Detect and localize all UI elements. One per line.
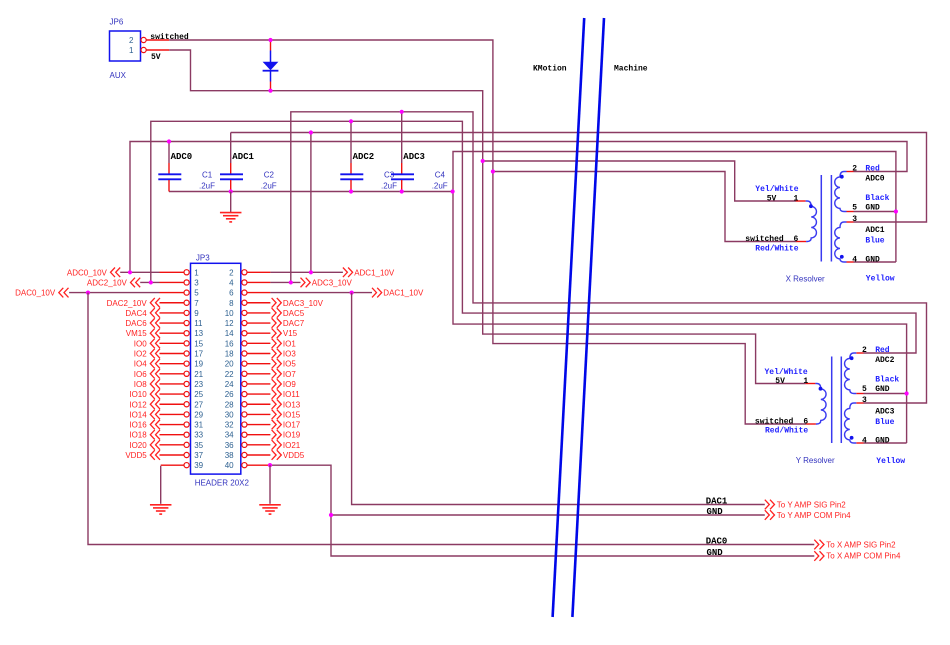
svg-text:14: 14	[225, 329, 234, 338]
transformer Y-resolver top secondary winding polarity dot	[850, 356, 854, 360]
chevron for ADC3_10V at pin 4	[301, 278, 311, 288]
chevron for IO13 at pin 28	[272, 399, 282, 409]
svg-text:GND: GND	[707, 507, 724, 517]
svg-text:17: 17	[194, 350, 203, 359]
JP3 pin 38 circle	[242, 452, 247, 457]
svg-text:To X AMP COM Pin4: To X AMP COM Pin4	[826, 551, 901, 560]
svg-text:Machine: Machine	[614, 64, 648, 73]
JP3 pin 3 circle	[184, 280, 189, 285]
svg-text:switched: switched	[755, 418, 794, 427]
JP3 pin 31 circle	[184, 422, 189, 427]
transformer Y-resolver bottom secondary winding polarity dot	[850, 436, 854, 440]
wire pin 2 to chevron	[270, 271, 343, 273]
junction C3 bottom on ground bus	[349, 189, 353, 193]
diode D1 bottom red stub	[270, 82, 272, 91]
JP3 pin 34 red stub	[247, 434, 270, 436]
svg-text:IO16: IO16	[129, 421, 147, 430]
svg-text:Blue: Blue	[875, 418, 894, 427]
header JP3 body	[191, 263, 241, 474]
transformer Y-resolver bottom secondary winding lower red stub	[856, 442, 863, 444]
wire pin 1 to chevron	[120, 271, 159, 273]
JP3 pin 10 red stub	[247, 312, 270, 314]
svg-text:31: 31	[194, 421, 203, 430]
chevron for DAC6 at pin 11	[150, 318, 160, 328]
svg-text:DAC0_10V: DAC0_10V	[15, 289, 56, 298]
svg-text:DAC1_10V: DAC1_10V	[383, 289, 424, 298]
svg-text:5: 5	[862, 385, 867, 394]
wire DAC1 net: pin6 junction down and across to Y AMP	[352, 293, 765, 505]
svg-text:6: 6	[803, 418, 808, 427]
svg-text:Y Resolver: Y Resolver	[796, 456, 835, 465]
chevron for IO19 at pin 34	[272, 430, 282, 440]
svg-text:GND: GND	[707, 548, 724, 558]
transformer Y-resolver top secondary winding upper red stub	[856, 352, 863, 354]
JP3 pin 25 red stub	[160, 393, 184, 395]
svg-text:IO21: IO21	[283, 441, 301, 450]
chevron for VDD5 at pin 38	[272, 450, 282, 460]
JP3 pin 12 circle	[242, 320, 247, 325]
svg-text:2: 2	[852, 165, 857, 174]
transformer X-resolver bottom secondary winding	[835, 222, 847, 262]
svg-text:Red: Red	[865, 165, 880, 174]
svg-text:IO3: IO3	[283, 350, 296, 359]
svg-text:1: 1	[794, 195, 799, 204]
svg-text:IO20: IO20	[129, 441, 147, 450]
boundary line KMotion|Machine left	[553, 18, 585, 617]
svg-text:ADC2: ADC2	[353, 152, 375, 162]
JP3 pin 23 circle	[184, 381, 189, 386]
svg-text:3: 3	[194, 278, 199, 287]
chevron for IO6 at pin 21	[150, 369, 160, 379]
transformer Y-resolver top secondary winding lower red stub	[856, 393, 863, 395]
transformer Y-resolver pin6 red stub	[806, 423, 816, 425]
chevron for IO2 at pin 17	[150, 349, 160, 359]
svg-text:3: 3	[862, 396, 867, 405]
chevron To Y AMP COM	[765, 510, 775, 520]
chevron for IO3 at pin 18	[272, 349, 282, 359]
svg-text:7: 7	[194, 299, 199, 308]
svg-text:ADC0_10V: ADC0_10V	[67, 268, 108, 277]
svg-text:IO15: IO15	[283, 410, 301, 419]
JP3 pin 33 red stub	[160, 434, 184, 436]
ground symbol below pin39	[150, 505, 172, 514]
transformer X-resolver top secondary winding polarity dot	[840, 175, 844, 179]
svg-text:8: 8	[229, 299, 234, 308]
JP3 pin 8 red stub	[247, 302, 270, 304]
svg-text:DAC0: DAC0	[706, 536, 728, 546]
JP3 pin 16 circle	[242, 341, 247, 346]
JP3 pin 11 circle	[184, 320, 189, 325]
transformer Y-resolver pin1 red stub	[806, 383, 816, 385]
wire GND Y-resolver pin4 stub wire	[864, 442, 907, 444]
svg-text:5: 5	[194, 289, 199, 298]
junction C1 top on ADC0 wire	[167, 139, 171, 143]
svg-text:36: 36	[225, 441, 234, 450]
chevron for IO20 at pin 35	[150, 440, 160, 450]
svg-text:IO14: IO14	[129, 410, 147, 419]
JP3 pin 15 red stub	[160, 342, 184, 344]
svg-text:1: 1	[194, 268, 199, 277]
wire pin 6 to chevron	[270, 292, 372, 294]
chevron for IO16 at pin 31	[150, 420, 160, 430]
transformer Y-resolver primary winding	[815, 384, 826, 425]
JP3 pin 28 circle	[242, 402, 247, 407]
svg-text:IO10: IO10	[129, 390, 147, 399]
JP3 pin 31 red stub	[160, 424, 184, 426]
JP3 pin 11 red stub	[160, 322, 184, 324]
JP3 pin 18 red stub	[247, 353, 270, 355]
svg-text:Yel/White: Yel/White	[765, 368, 808, 377]
JP3 pin 14 circle	[242, 331, 247, 336]
wire ADC1 net: C2 top across to X-resolver pin3	[231, 133, 927, 223]
JP3 pin 27 circle	[184, 402, 189, 407]
capacitor C2 plates	[220, 174, 243, 179]
connector JP6 body	[110, 31, 141, 61]
chevron To Y AMP SIG	[765, 500, 775, 510]
JP3 pin 9 red stub	[160, 312, 184, 314]
svg-text:Red/White: Red/White	[755, 244, 798, 253]
wire switched net: JP6 pin2 to corner, down to Y-resolver pin6 run	[169, 40, 806, 424]
svg-text:DAC6: DAC6	[125, 319, 147, 328]
junction ADC1 wire / pin2 vertical	[309, 130, 313, 134]
JP3 pin 35 red stub	[160, 444, 184, 446]
chevron To X AMP COM	[814, 551, 824, 561]
svg-text:18: 18	[225, 350, 234, 359]
JP3 pin 37 red stub	[160, 454, 184, 456]
junction GND split at Y AMP branch	[329, 513, 333, 517]
chevron for DAC5 at pin 10	[272, 308, 282, 318]
chevron for VM15 at pin 13	[150, 328, 160, 338]
chevron for IO7 at pin 22	[272, 369, 282, 379]
svg-text:38: 38	[225, 451, 234, 460]
JP6 pin 1 stub	[146, 49, 169, 51]
JP3 pin 32 circle	[242, 422, 247, 427]
capacitor C3 top red lead	[350, 163, 352, 174]
JP3 pin 23 red stub	[160, 383, 184, 385]
svg-text:29: 29	[194, 410, 203, 419]
JP3 pin 32 red stub	[247, 424, 270, 426]
chevron for DAC2_10V at pin 7	[150, 298, 160, 308]
svg-text:Red/White: Red/White	[765, 426, 808, 435]
junction C4 bottom on ground bus	[400, 189, 404, 193]
svg-text:5V: 5V	[767, 195, 777, 204]
chevron for ADC2_10V at pin 3	[131, 278, 141, 288]
JP3 pin 16 red stub	[247, 342, 270, 344]
diode D1 anode lead	[270, 51, 272, 63]
wire ADC1 vertical to JP3 pin2	[310, 133, 312, 273]
svg-text:13: 13	[194, 329, 203, 338]
JP3 pin 39 circle	[184, 463, 189, 468]
svg-text:6: 6	[229, 289, 234, 298]
JP3 pin 18 circle	[242, 351, 247, 356]
JP3 pin 14 red stub	[247, 332, 270, 334]
svg-text:ADC0: ADC0	[865, 174, 884, 183]
svg-text:5: 5	[852, 204, 857, 213]
svg-text:X Resolver: X Resolver	[786, 275, 825, 284]
wire switched branch to X-resolver pin6	[493, 172, 797, 242]
svg-text:16: 16	[225, 339, 234, 348]
svg-text:IO17: IO17	[283, 421, 301, 430]
svg-text:ADC2: ADC2	[875, 356, 894, 365]
svg-text:26: 26	[225, 390, 234, 399]
transformer X-resolver core lines	[821, 175, 831, 262]
svg-text:39: 39	[194, 461, 203, 470]
JP3 pin 5 circle	[184, 290, 189, 295]
JP3 pin 4 red stub	[247, 281, 270, 283]
svg-text:24: 24	[225, 380, 234, 389]
diode D1 top red stub	[270, 40, 272, 51]
transformer Y-resolver bottom secondary winding upper red stub	[856, 402, 863, 404]
svg-text:IO18: IO18	[129, 431, 147, 440]
capacitor C4 bottom red lead	[401, 180, 403, 192]
svg-text:35: 35	[194, 441, 203, 450]
junction cap bus at GND vertical	[451, 189, 455, 193]
svg-text:15: 15	[194, 339, 203, 348]
wire GND branch to Y AMP COM	[331, 514, 765, 516]
svg-text:Yel/White: Yel/White	[755, 185, 798, 194]
transformer X-resolver primary polarity dot	[809, 204, 813, 208]
svg-text:4: 4	[862, 436, 867, 445]
svg-text:C1: C1	[202, 171, 213, 180]
svg-text:VM15: VM15	[126, 329, 147, 338]
svg-text:11: 11	[194, 319, 203, 328]
svg-text:KMotion: KMotion	[533, 64, 567, 73]
JP3 pin 25 circle	[184, 392, 189, 397]
ground stem below pin39	[160, 466, 162, 504]
junction GND at Y-resolver pin5	[905, 391, 909, 395]
svg-text:1: 1	[803, 377, 808, 386]
capacitor C1 bottom red lead	[168, 180, 170, 192]
JP3 pin 13 red stub	[160, 332, 184, 334]
chevron for IO10 at pin 25	[150, 389, 160, 399]
JP3 pin 29 circle	[184, 412, 189, 417]
ground stem below C2	[230, 192, 232, 213]
svg-text:DAC1: DAC1	[706, 496, 728, 506]
wire capacitor ground bus	[169, 191, 453, 193]
svg-text:AUX: AUX	[110, 71, 127, 80]
svg-text:VDD5: VDD5	[283, 451, 305, 460]
capacitor C3 top net wire	[350, 121, 352, 163]
JP3 pin 34 circle	[242, 432, 247, 437]
svg-text:.2uF: .2uF	[432, 182, 448, 191]
chevron for ADC1_10V at pin 2	[343, 268, 353, 278]
JP3 pin 28 red stub	[247, 403, 270, 405]
JP3 pin 40 red stub	[247, 464, 270, 466]
JP6 pin 2 circle	[141, 37, 146, 42]
wire pin 3 to chevron	[140, 281, 159, 283]
capacitor C3 bottom red lead	[350, 180, 352, 192]
JP3 pin 33 circle	[184, 432, 189, 437]
junction C3 top on ADC2 wire	[349, 119, 353, 123]
transformer X-resolver pin6 red stub	[796, 241, 806, 243]
JP3 pin 19 red stub	[160, 363, 184, 365]
svg-text:V15: V15	[283, 329, 298, 338]
svg-text:19: 19	[194, 360, 203, 369]
chevron for IO14 at pin 29	[150, 410, 160, 420]
capacitor C2 top net wire	[230, 133, 232, 164]
capacitor C1 top red lead	[168, 163, 170, 174]
JP3 pin 5 red stub	[160, 292, 184, 294]
svg-text:Black: Black	[875, 375, 899, 384]
svg-text:.2uF: .2uF	[261, 182, 277, 191]
svg-text:30: 30	[225, 410, 234, 419]
chevron for V15 at pin 14	[272, 328, 282, 338]
JP3 pin 6 circle	[242, 290, 247, 295]
svg-text:IO1: IO1	[283, 339, 296, 348]
JP3 pin 26 circle	[242, 392, 247, 397]
svg-text:IO13: IO13	[283, 400, 301, 409]
svg-text:IO12: IO12	[129, 400, 147, 409]
JP3 pin 40 circle	[242, 463, 247, 468]
junction diode bottom on 5V wire	[268, 89, 272, 93]
svg-text:.2uF: .2uF	[199, 182, 215, 191]
svg-text:10: 10	[225, 309, 234, 318]
svg-text:DAC3_10V: DAC3_10V	[283, 299, 324, 308]
chevron To X AMP SIG	[814, 540, 824, 550]
JP3 pin 1 red stub	[160, 271, 184, 273]
svg-text:IO2: IO2	[134, 350, 147, 359]
junction C2 bottom on ground bus	[229, 189, 233, 193]
diode D1 triangle	[263, 62, 279, 70]
junction 5V/X-branch	[481, 159, 485, 163]
chevron for DAC0_10V at pin 5	[59, 288, 69, 298]
JP3 pin 36 circle	[242, 442, 247, 447]
svg-text:27: 27	[194, 400, 203, 409]
wire GND net from pin40 down to AMP COM runs	[270, 465, 814, 556]
chevron for IO0 at pin 15	[150, 339, 160, 349]
svg-text:GND: GND	[875, 436, 890, 445]
svg-text:20: 20	[225, 360, 234, 369]
chevron for IO12 at pin 27	[150, 399, 160, 409]
svg-text:IO11: IO11	[283, 390, 300, 399]
svg-text:ADC1_10V: ADC1_10V	[354, 268, 395, 277]
wire ADC0 net: vertical to JP3 pin1 and across to X-resolver pin2	[130, 142, 907, 273]
svg-text:2: 2	[862, 346, 867, 355]
wire 5V net: JP6 pin1 down, right, down to Y-resolver pin1 run	[169, 50, 805, 384]
JP3 pin 27 red stub	[160, 403, 184, 405]
chevron for DAC4 at pin 9	[150, 308, 160, 318]
junction C4 top on ADC3 wire	[400, 110, 404, 114]
svg-text:34: 34	[225, 431, 234, 440]
JP3 pin 22 circle	[242, 371, 247, 376]
JP3 pin 15 circle	[184, 341, 189, 346]
wire GND net: cap bottoms vertical and to both resolver center taps	[453, 152, 907, 444]
wire DAC0_10V pin5 run	[69, 292, 159, 294]
chevron for DAC7 at pin 12	[272, 318, 282, 328]
svg-text:VDD5: VDD5	[125, 451, 147, 460]
JP3 pin 12 red stub	[247, 322, 270, 324]
svg-text:5V: 5V	[151, 53, 161, 62]
junction switched/X-branch	[491, 169, 495, 173]
JP3 pin 22 red stub	[247, 373, 270, 375]
chevron for IO1 at pin 16	[272, 339, 282, 349]
svg-text:C2: C2	[264, 171, 275, 180]
svg-text:ADC3: ADC3	[403, 152, 425, 162]
svg-text:GND: GND	[865, 204, 880, 213]
transformer X-resolver bottom secondary winding lower red stub	[847, 261, 854, 263]
svg-text:33: 33	[194, 431, 203, 440]
svg-text:Red: Red	[875, 346, 890, 355]
chevron for ADC0_10V at pin 1	[111, 268, 121, 278]
svg-text:ADC1: ADC1	[865, 226, 884, 235]
svg-text:ADC1: ADC1	[232, 152, 254, 162]
wire ADC2 net: vertical from JP3 pin3 up and across to Y-resolver pin2	[151, 121, 916, 353]
JP3 pin 38 red stub	[247, 454, 270, 456]
svg-text:3: 3	[852, 215, 857, 224]
wire GND X-resolver pin5 stub wire	[854, 211, 896, 213]
transformer X-resolver pin1 red stub	[796, 200, 806, 202]
svg-text:.2uF: .2uF	[381, 182, 397, 191]
svg-text:IO19: IO19	[283, 431, 301, 440]
svg-text:ADC2_10V: ADC2_10V	[87, 278, 128, 287]
junction diode top on switched wire	[268, 38, 272, 42]
JP3 pin 7 circle	[184, 300, 189, 305]
wire pin 4 to chevron	[270, 281, 300, 283]
capacitor C4 top red lead	[401, 163, 403, 174]
svg-text:IO8: IO8	[134, 380, 147, 389]
junction JP3 pin5 / DAC0 vertical	[86, 291, 90, 295]
transformer X-resolver top secondary winding lower red stub	[847, 211, 854, 213]
transformer Y-resolver bottom secondary winding	[845, 403, 857, 443]
svg-text:C4: C4	[435, 171, 446, 180]
svg-text:HEADER 20X2: HEADER 20X2	[195, 479, 250, 488]
JP6 pin 1 circle	[141, 47, 146, 52]
svg-text:To Y AMP SIG Pin2: To Y AMP SIG Pin2	[777, 500, 846, 509]
svg-text:2: 2	[129, 36, 134, 45]
ground symbol below pin40	[259, 505, 281, 514]
svg-text:Black: Black	[865, 194, 889, 203]
JP3 pin 13 circle	[184, 331, 189, 336]
JP3 pin 21 circle	[184, 371, 189, 376]
svg-text:DAC4: DAC4	[125, 309, 147, 318]
junction JP3 pin6 / DAC1 vertical	[350, 291, 354, 295]
chevron for IO9 at pin 24	[272, 379, 282, 389]
ground symbol below C2	[220, 213, 242, 222]
JP3 pin 37 circle	[184, 452, 189, 457]
JP3 pin 9 circle	[184, 310, 189, 315]
JP3 pin 24 circle	[242, 381, 247, 386]
JP3 pin 21 red stub	[160, 373, 184, 375]
diode D1 cathode bar	[263, 70, 279, 72]
svg-text:6: 6	[794, 235, 799, 244]
junction JP3 pin1 / ADC0 vertical	[128, 270, 132, 274]
svg-text:2: 2	[229, 268, 234, 277]
svg-text:IO7: IO7	[283, 370, 296, 379]
JP3 pin39 red corner wire	[161, 464, 184, 466]
chevron for DAC1_10V at pin 6	[372, 288, 382, 298]
JP3 pin 3 red stub	[160, 281, 184, 283]
svg-text:IO4: IO4	[134, 360, 147, 369]
chevron for IO17 at pin 32	[272, 420, 282, 430]
svg-text:IO9: IO9	[283, 380, 296, 389]
svg-text:IO6: IO6	[134, 370, 147, 379]
transformer X-resolver top secondary winding	[835, 172, 847, 212]
junction JP3 pin2 / ADC1 vertical	[309, 270, 313, 274]
transformer Y-resolver core lines	[832, 357, 842, 444]
JP3 pin 30 red stub	[247, 413, 270, 415]
JP6 pin 2 stub	[146, 39, 169, 41]
svg-text:IO0: IO0	[134, 339, 147, 348]
wire GND X-resolver pin4 stub wire	[854, 261, 896, 263]
transformer Y-resolver top secondary winding	[845, 353, 857, 394]
capacitor C4 plates	[391, 174, 414, 179]
JP3 pin 35 circle	[184, 442, 189, 447]
JP3 pin 10 circle	[242, 310, 247, 315]
svg-text:JP6: JP6	[110, 18, 124, 27]
JP3 pin 24 red stub	[247, 383, 270, 385]
svg-text:DAC7: DAC7	[283, 319, 305, 328]
junction pin40 ground stem	[268, 463, 272, 467]
